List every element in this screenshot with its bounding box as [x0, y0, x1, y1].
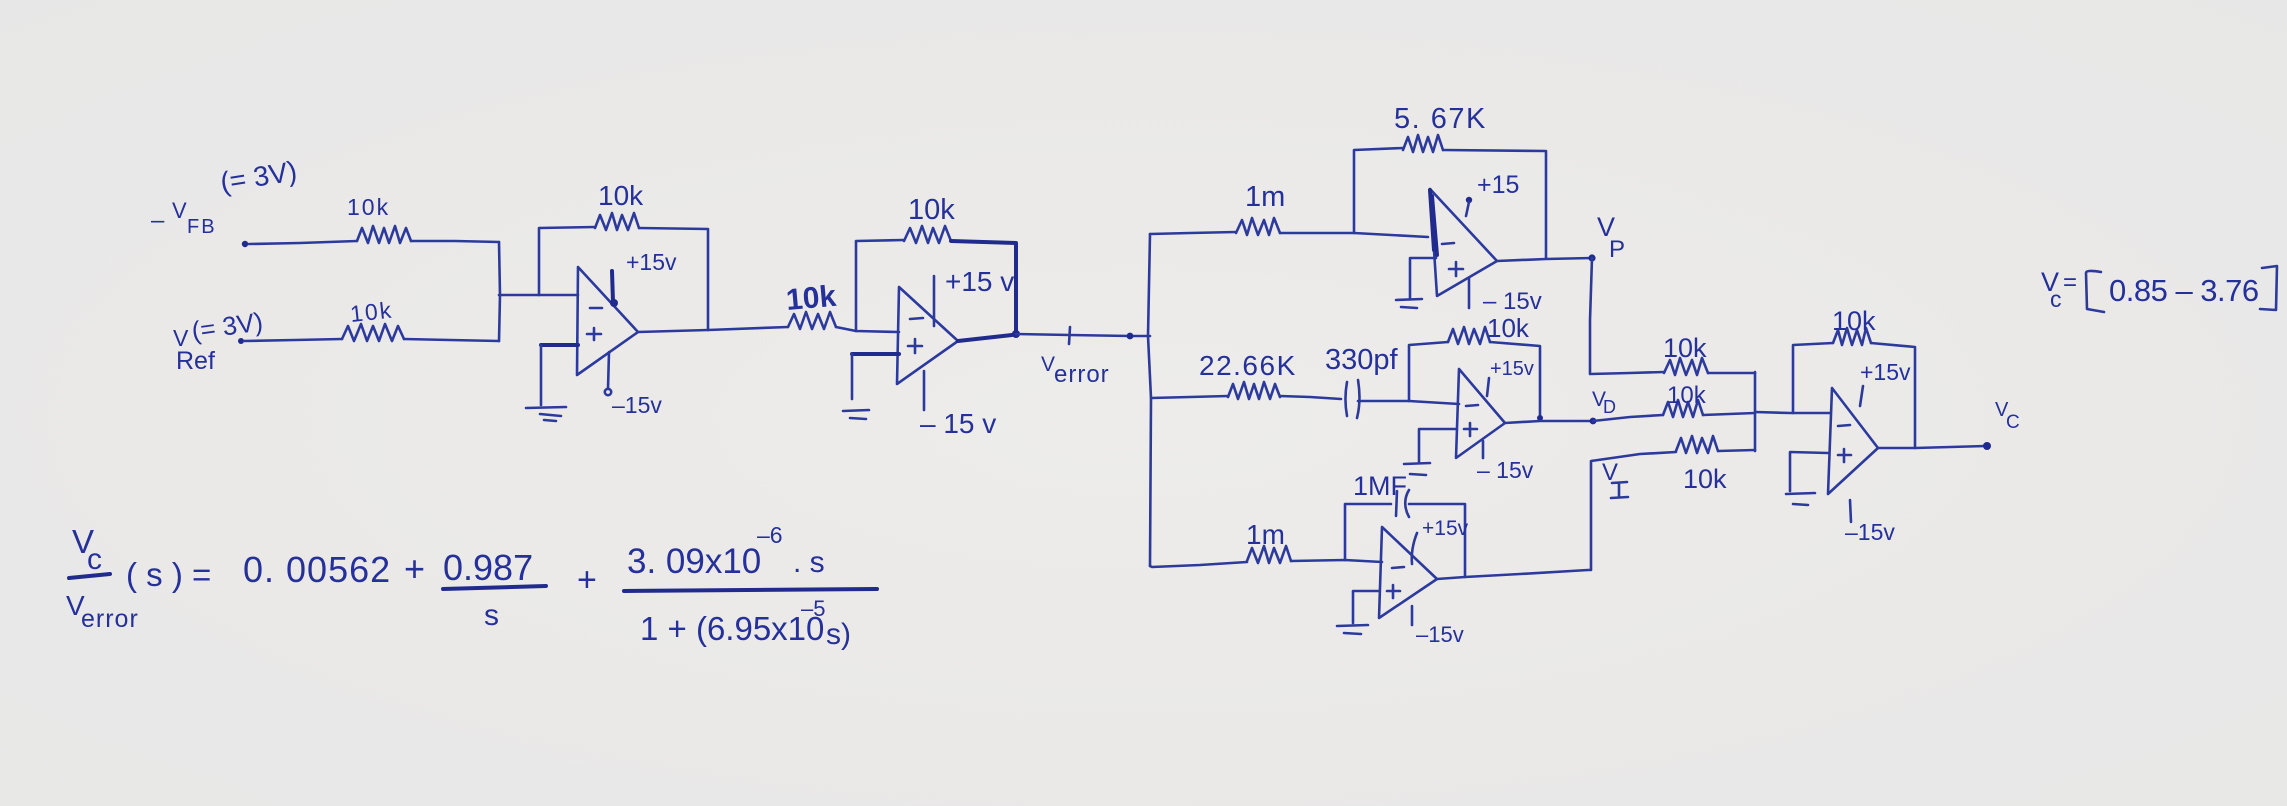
svg-text:V: V	[172, 198, 187, 223]
resistor 22.66K	[1228, 382, 1280, 399]
U5 plus sign	[1387, 585, 1400, 598]
wire non-inverting input to ground	[852, 352, 899, 356]
svg-text:1m: 1m	[1245, 181, 1285, 213]
U3 left edge overdrawn heavy	[1430, 190, 1437, 255]
node VRef input terminal	[238, 338, 244, 344]
ground U4	[1404, 463, 1430, 475]
svg-text:–15v: –15v	[612, 392, 662, 418]
svg-text:– 15 v: – 15 v	[920, 408, 996, 439]
svg-text:1MF: 1MF	[1353, 471, 1407, 501]
svg-text:–15v: –15v	[1845, 519, 1895, 545]
wire VRef input	[244, 339, 342, 341]
svg-text:10k: 10k	[349, 297, 395, 327]
svg-text:1m: 1m	[1246, 519, 1285, 550]
svg-text:+: +	[577, 561, 597, 599]
svg-text:10k: 10k	[785, 280, 838, 317]
label VRef (= 3V)	[173, 306, 265, 375]
svg-text:+: +	[404, 548, 425, 589]
resistor 10k feedback U1	[595, 213, 639, 230]
svg-text:0.85 – 3.76: 0.85 – 3.76	[2109, 273, 2259, 308]
wire U4 non-inverting input to ground	[1419, 429, 1456, 462]
U2 plus sign	[908, 339, 922, 353]
feedback loop wire (right side)	[639, 228, 708, 330]
wire U2 output	[958, 335, 1012, 341]
op-amp U6 (summer)	[1828, 388, 1878, 494]
op-amp U1	[577, 267, 638, 375]
+15v supply U5	[1412, 533, 1417, 564]
wire U5 output up to VI	[1437, 452, 1676, 579]
wire to 22.66K resistor	[1151, 396, 1228, 398]
wire summing junction vertical	[1754, 372, 1757, 451]
svg-text:10k: 10k	[1667, 382, 1707, 409]
wire to 1m resistor	[1150, 232, 1236, 234]
svg-text:10k: 10k	[1683, 464, 1727, 494]
svg-text:0.987: 0.987	[443, 547, 533, 588]
ground U3	[1396, 299, 1422, 308]
wire capacitor to U4 inverting input	[1358, 401, 1459, 404]
wire resistor to capacitor	[1280, 396, 1341, 399]
resistor 1m (P input)	[1236, 218, 1280, 235]
svg-text:. s: . s	[793, 546, 825, 579]
wire VP down to summing resistor	[1590, 258, 1664, 374]
node Verror tick	[1069, 327, 1070, 344]
-15V supply U3	[1468, 278, 1471, 308]
wire U1 output	[638, 327, 788, 332]
wire U6 non-inverting input to ground	[1790, 452, 1828, 491]
svg-text:10k: 10k	[1487, 313, 1530, 343]
ground U5	[1337, 625, 1368, 634]
wire resistor to junction	[1718, 450, 1755, 451]
feedback loop U5 (right side)	[1409, 504, 1465, 577]
U4 plus sign	[1464, 423, 1477, 436]
capacitor 1MF feedback U5	[1396, 490, 1409, 517]
U3 minus sign	[1442, 243, 1454, 244]
U1 minus sign	[590, 307, 602, 310]
label VC = [0.85 - 3.76]	[2041, 266, 2277, 312]
svg-text:P: P	[1609, 236, 1625, 263]
U1 plus sign	[587, 328, 601, 340]
svg-text:s: s	[484, 599, 499, 632]
-15V supply U1	[608, 352, 609, 389]
resistor 10k (between U1 and U2)	[788, 312, 836, 329]
wire non-inverting input to ground	[541, 343, 578, 347]
resistor 10k (D to summer)	[1663, 400, 1703, 417]
wire U4 output to VD node	[1505, 421, 1593, 423]
svg-text:FB: FB	[187, 216, 217, 238]
ground U1	[526, 407, 566, 421]
op-amp U3 (P)	[1430, 189, 1497, 296]
wire joining bar vertical	[499, 242, 500, 341]
U4 minus sign	[1466, 405, 1478, 406]
node VFB input terminal	[242, 241, 248, 247]
wire VFB input	[249, 241, 357, 244]
feedback loop U5 (left+top)	[1345, 504, 1391, 560]
term 0.987 / s	[443, 547, 546, 632]
wire resistor to junction	[1708, 372, 1755, 375]
U2 minus sign	[910, 318, 923, 319]
svg-text:–6: –6	[757, 522, 783, 548]
svg-text:=: =	[2063, 269, 2077, 296]
+15v supply U4	[1487, 378, 1489, 396]
-15v supply U5	[1411, 606, 1414, 625]
resistor 10k (VFB input)	[357, 226, 411, 243]
svg-text:0. 00562: 0. 00562	[243, 549, 391, 590]
svg-text:22.66K: 22.66K	[1199, 350, 1297, 381]
resistor 5.67K feedback U3	[1403, 135, 1443, 152]
node junction dot	[1127, 333, 1134, 340]
feedback loop U4 (right side)	[1490, 342, 1540, 419]
label -VFB (= 3V)	[151, 155, 299, 238]
resistor 10k feedback U4	[1448, 327, 1490, 344]
-15V supply U2	[923, 371, 926, 410]
svg-text:+15v: +15v	[1422, 517, 1469, 540]
svg-text:+15v: +15v	[626, 249, 677, 275]
resistor 1m (I input)	[1247, 546, 1291, 563]
svg-text:Ref: Ref	[176, 347, 215, 375]
svg-text:( s ) =: ( s ) =	[126, 556, 211, 593]
svg-text:10k: 10k	[1663, 333, 1707, 363]
node VC output terminal	[1983, 442, 1991, 450]
svg-text:5. 67K: 5. 67K	[1394, 103, 1487, 135]
U5 minus sign	[1392, 567, 1404, 568]
ground U6	[1786, 493, 1815, 505]
+15V supply U2	[933, 276, 936, 326]
feedback loop U6 (left+top)	[1793, 343, 1833, 413]
wire output to branch point	[1016, 334, 1150, 336]
resistor 10k feedback U6	[1833, 328, 1871, 345]
feedback loop U3 (left+top)	[1354, 148, 1403, 233]
svg-text:10k: 10k	[347, 194, 390, 220]
svg-text:1 + (6.95x10: 1 + (6.95x10	[640, 610, 824, 647]
resistor 10k (VRef input)	[342, 324, 404, 341]
svg-text:+15: +15	[1477, 171, 1519, 199]
feedback loop U2 (left+top)	[856, 240, 904, 331]
node VD	[1590, 418, 1597, 425]
svg-text:330pf: 330pf	[1325, 344, 1399, 376]
label Vc over Verror (s) =	[66, 523, 211, 633]
svg-text:–: –	[151, 207, 165, 234]
wire U3 non-inverting input to ground	[1410, 258, 1436, 298]
-15v supply U6	[1850, 500, 1851, 522]
feedback loop U2 (right side, heavy)	[951, 241, 1016, 333]
svg-text:–15v: –15v	[1416, 622, 1464, 647]
wire VD to summing resistor	[1593, 415, 1663, 421]
svg-text:10k: 10k	[1832, 306, 1876, 336]
feedback loop U4 (left+top)	[1409, 342, 1448, 401]
+15v supply U6	[1860, 386, 1863, 406]
svg-text:error: error	[81, 605, 139, 633]
svg-text:s): s)	[826, 618, 851, 651]
feedback loop U3 (right side)	[1443, 150, 1546, 258]
resistor 10k feedback U2	[904, 226, 951, 243]
svg-text:10k: 10k	[908, 194, 955, 226]
svg-text:error: error	[1054, 361, 1110, 388]
svg-text:– 15v: – 15v	[1483, 288, 1542, 315]
term 3.09x10^-6 s over 1+(6.95x10^-5 s)	[624, 522, 877, 651]
svg-text:V: V	[1041, 353, 1055, 376]
feedback loop wire (left+top)	[539, 227, 595, 295]
wire U3 output to VP node	[1497, 258, 1592, 261]
svg-text:3. 09x10: 3. 09x10	[627, 542, 761, 581]
feedback loop U6 (right side)	[1871, 343, 1915, 448]
wire resistor to junction	[1703, 413, 1755, 415]
svg-text:c: c	[2050, 286, 2062, 312]
wire to 1m resistor	[1150, 562, 1247, 567]
wire branch vertical spine	[1148, 234, 1151, 566]
U6 plus sign	[1838, 449, 1851, 462]
node VP	[1588, 254, 1595, 261]
wire resistor to joining bar	[404, 339, 499, 341]
+15V supply U1	[612, 271, 613, 302]
wire junction to U6 inverting input	[1755, 412, 1830, 413]
op-amp U5 (I)	[1379, 527, 1437, 618]
resistor 10k (P to summer)	[1664, 358, 1708, 375]
+15 supply U3	[1466, 197, 1472, 203]
wire resistor to U2 inverting input	[836, 327, 899, 332]
svg-text:c: c	[87, 543, 102, 576]
svg-text:+15 v: +15 v	[945, 266, 1014, 297]
op-amp U2	[897, 287, 958, 384]
wire U5 non-inverting input to ground	[1353, 591, 1379, 623]
wire resistor to joining bar	[411, 241, 499, 242]
-15V supply U4	[1482, 441, 1485, 458]
ground U2	[843, 410, 869, 419]
wire to inverting input	[499, 294, 578, 297]
wire U6 output	[1878, 446, 1986, 448]
wire resistor to U5 inverting input	[1291, 560, 1382, 562]
op-amp U4 (D)	[1456, 369, 1505, 458]
svg-text:– 15v: – 15v	[1477, 457, 1534, 483]
svg-text:D: D	[1603, 397, 1616, 417]
svg-text:+15v: +15v	[1490, 358, 1534, 380]
svg-text:10k: 10k	[598, 180, 644, 211]
svg-text:–5: –5	[801, 596, 825, 621]
svg-text:+15v: +15v	[1860, 359, 1911, 385]
resistor 10k (I to summer)	[1676, 436, 1718, 453]
capacitor 330pf	[1346, 380, 1360, 418]
U6 minus sign	[1838, 425, 1850, 426]
svg-text:C: C	[2006, 412, 2020, 433]
wire resistor to U3 inverting input	[1280, 233, 1428, 237]
U3 plus sign	[1449, 262, 1463, 276]
